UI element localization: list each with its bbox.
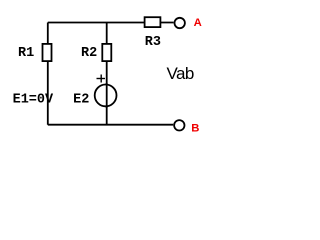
svg-text:R1: R1 bbox=[18, 46, 34, 61]
svg-text:E1=0V: E1=0V bbox=[13, 93, 54, 108]
svg-text:B: B bbox=[191, 122, 199, 134]
svg-text:R2: R2 bbox=[81, 46, 97, 61]
svg-text:R3: R3 bbox=[145, 35, 161, 50]
svg-text:A: A bbox=[194, 17, 202, 29]
svg-text:E2: E2 bbox=[73, 93, 89, 108]
svg-text:Vab: Vab bbox=[167, 64, 194, 83]
